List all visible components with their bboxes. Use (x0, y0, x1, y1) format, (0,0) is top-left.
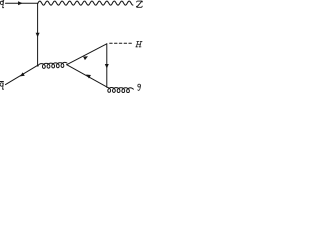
arrow on antiquark line (20, 72, 25, 76)
outgoing gluon g2 (curls) (107, 87, 133, 92)
Higgs dashed line (110, 42, 133, 44)
label g (138, 84, 141, 90)
label q (0, 1, 4, 8)
triangle loop edge E-C (bottom) (67, 65, 107, 87)
arrow on internal quark propagator (36, 33, 40, 38)
overbar of qbar label (0, 80, 3, 82)
arrow on edge E-C (86, 75, 91, 79)
triangle loop edge C-D (top) (67, 44, 107, 65)
internal quark propagator (vertical) (37, 3, 39, 66)
arrow on edge C-D (83, 56, 88, 60)
label Z (136, 1, 142, 7)
arrow on incoming quark line (18, 1, 23, 5)
label qbar (0, 82, 4, 90)
triangle loop edge D-E (right vertical) (106, 44, 108, 87)
gluon propagator g1 (curls) (38, 62, 67, 68)
incoming quark line q (6, 2, 38, 4)
label H (136, 42, 142, 47)
Z boson wavy line (38, 1, 133, 5)
arrow on edge D-E (105, 64, 109, 69)
incoming antiquark line qbar (6, 65, 38, 84)
